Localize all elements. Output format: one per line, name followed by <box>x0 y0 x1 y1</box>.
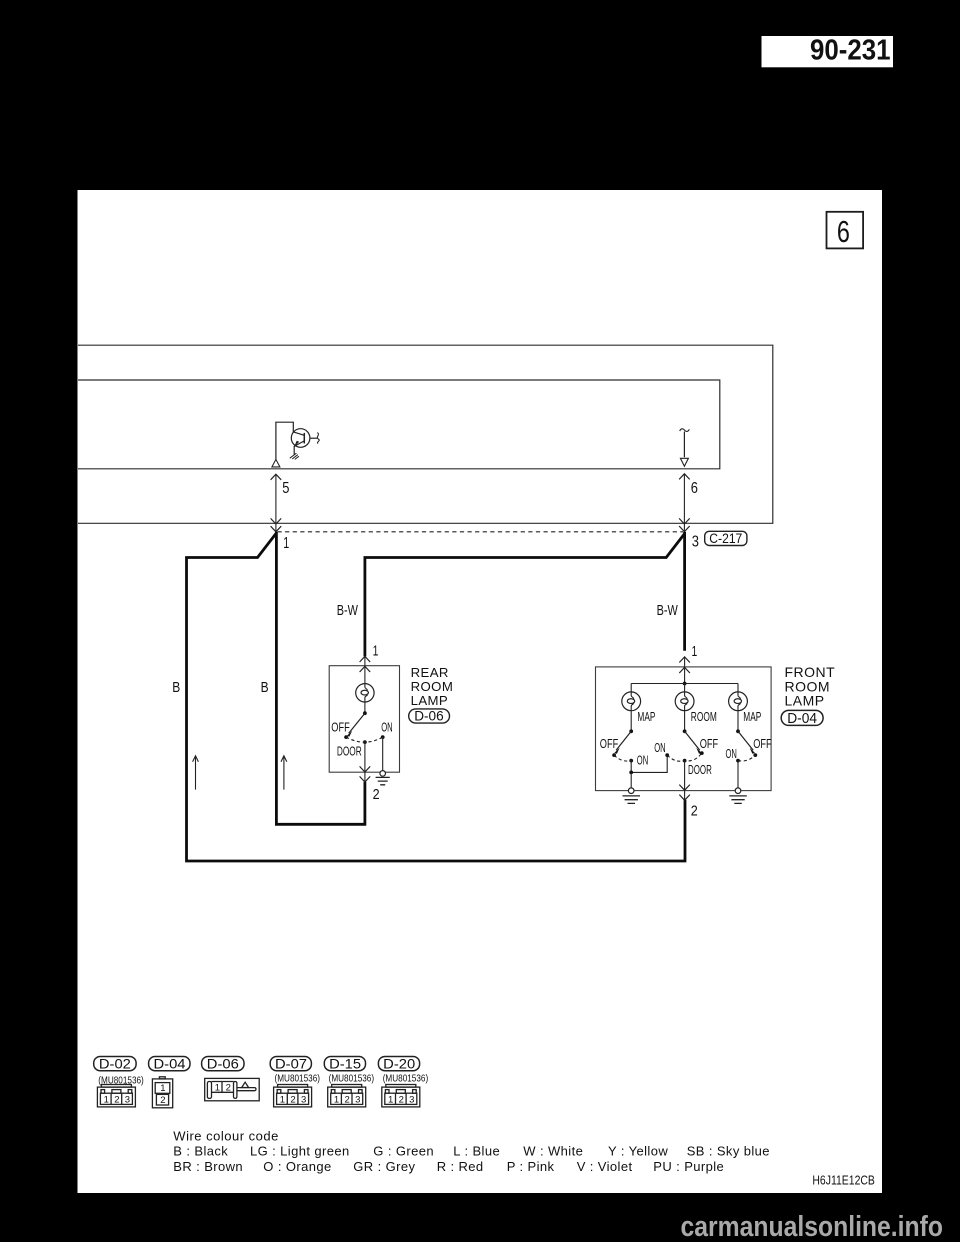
svg-text:ON: ON <box>726 746 737 761</box>
svg-text:B: B <box>261 679 269 696</box>
unit box outer (ETACS unit outline) <box>78 345 773 523</box>
pin 5 arrow <box>271 474 282 532</box>
svg-text:2: 2 <box>399 1094 404 1105</box>
svg-text:DOOR: DOOR <box>337 744 362 759</box>
svg-text:2: 2 <box>373 787 380 803</box>
switch pivot dot <box>363 711 367 715</box>
front room lamp unit box D-04 <box>596 667 772 791</box>
svg-text:3: 3 <box>125 1094 130 1105</box>
connector pill D-07 <box>270 1055 311 1071</box>
middle DOOR dot <box>683 759 687 763</box>
pin digits D-07 <box>280 1094 306 1105</box>
svg-text:D-15: D-15 <box>329 1055 361 1071</box>
svg-text:ROOM: ROOM <box>691 709 717 724</box>
svg-text:LAMP: LAMP <box>785 693 825 709</box>
pin digits D-04 <box>160 1083 165 1106</box>
ground terminal circle right <box>735 788 741 794</box>
connector drawing D-04 <box>152 1077 172 1108</box>
pin digits D-06 <box>215 1082 231 1093</box>
svg-text:6: 6 <box>691 480 698 497</box>
connector-end triangle (hollow, down) <box>680 458 688 466</box>
flow arrow left <box>193 756 199 790</box>
svg-text:2: 2 <box>691 803 698 819</box>
lamp bus wire <box>631 683 738 685</box>
svg-text:D-06: D-06 <box>207 1055 239 1071</box>
connector C-217 dashed line <box>278 531 684 533</box>
svg-text:5: 5 <box>282 480 289 497</box>
svg-text:H6J11E12CB: H6J11E12CB <box>812 1172 875 1187</box>
svg-text:B-W: B-W <box>657 602 679 619</box>
sheet number box 6 <box>827 212 864 249</box>
svg-text:3: 3 <box>301 1094 306 1105</box>
svg-text:P : Pink: P : Pink <box>507 1159 555 1174</box>
svg-text:D-04: D-04 <box>154 1055 186 1071</box>
svg-text:1: 1 <box>692 644 698 660</box>
wire B-W junction3 to front lamp pin1 (thick) <box>683 532 686 651</box>
bulb MAP right <box>729 684 748 732</box>
right OFF dot <box>753 753 757 757</box>
wire DOOR to pin2 <box>364 742 366 781</box>
svg-text:1: 1 <box>388 1094 393 1105</box>
right selector dashed arc <box>738 755 755 761</box>
wire ON to ground <box>382 737 384 771</box>
ground (front right) <box>729 796 747 804</box>
svg-text:(MU801536): (MU801536) <box>383 1073 429 1085</box>
link dot <box>629 771 633 775</box>
left switch blade <box>616 731 631 750</box>
middle switch pivot dot <box>683 729 687 733</box>
wire <box>683 432 685 458</box>
svg-text:ON: ON <box>381 720 392 735</box>
connector-end triangle (hollow, up) <box>272 459 280 467</box>
right ON dot <box>736 759 740 763</box>
svg-text:REAR: REAR <box>411 665 449 680</box>
rear pin 1 chevrons <box>360 656 371 672</box>
pin digits D-20 <box>388 1094 414 1105</box>
bulb rear room lamp <box>356 684 374 702</box>
wire left to ground <box>630 772 632 788</box>
ground (front left) <box>623 796 641 804</box>
pin digits D-15 <box>334 1094 360 1105</box>
left switch pivot dot <box>629 729 633 733</box>
svg-text:1: 1 <box>334 1094 339 1105</box>
svg-text:B-W: B-W <box>337 602 359 619</box>
svg-text:1: 1 <box>104 1094 109 1105</box>
wire B-W junction3 to rear lamp pin1 (thick) <box>365 534 685 657</box>
svg-text:O : Orange: O : Orange <box>263 1159 331 1174</box>
wire DOOR to pin2 (front) <box>684 761 686 800</box>
connector drawing D-15 <box>328 1085 366 1107</box>
svg-text:W : White: W : White <box>523 1144 583 1159</box>
middle ON dot <box>665 753 669 757</box>
middle selector dashed arc <box>667 753 702 761</box>
wire B junction1 down to rear lamp pin2 (thick) <box>276 532 365 825</box>
svg-text:ON: ON <box>637 753 648 768</box>
svg-text:(MU801536): (MU801536) <box>275 1073 321 1085</box>
svg-text:SB : Sky blue: SB : Sky blue <box>687 1144 770 1159</box>
svg-text:ROOM: ROOM <box>411 679 454 694</box>
left OFF dot <box>612 753 616 757</box>
svg-text:2: 2 <box>226 1082 231 1093</box>
transistor ground (chassis) <box>290 453 299 459</box>
bulb MAP left <box>622 684 641 732</box>
front pin 1 chevrons <box>679 657 690 673</box>
svg-text:R : Red: R : Red <box>437 1159 484 1174</box>
svg-text:OFF: OFF <box>600 736 618 751</box>
connector drawing D-20 <box>382 1085 420 1107</box>
white diagram page <box>78 190 883 1193</box>
wire bulb to switch <box>364 702 366 713</box>
svg-text:1: 1 <box>215 1082 220 1093</box>
right switch pivot dot <box>736 729 740 733</box>
left selector dashed arc <box>614 755 631 761</box>
wire right ON to ground <box>737 761 739 788</box>
svg-text:6: 6 <box>837 215 850 249</box>
svg-text:D-02: D-02 <box>99 1055 131 1071</box>
svg-text:Y : Yellow: Y : Yellow <box>608 1144 668 1159</box>
contact DOOR dot <box>363 740 367 744</box>
middle switch blade <box>685 731 700 750</box>
connector pill D-06 <box>202 1055 244 1071</box>
svg-text:MAP: MAP <box>637 709 655 724</box>
svg-text:PU : Purple: PU : Purple <box>653 1159 724 1174</box>
ground terminal circle <box>380 771 386 777</box>
svg-text:2: 2 <box>345 1094 350 1105</box>
unit name REAR ROOM LAMP <box>411 665 454 708</box>
connector pill D-15 <box>324 1055 365 1071</box>
svg-text:LAMP: LAMP <box>411 693 449 708</box>
svg-text:B : Black: B : Black <box>173 1144 228 1159</box>
rear pin 2 chevrons <box>360 766 371 782</box>
flow arrow mid <box>281 756 287 790</box>
wire pin1 to bulb <box>364 657 366 684</box>
unit name FRONT ROOM LAMP <box>785 664 836 709</box>
svg-text:LG : Light green: LG : Light green <box>250 1144 350 1159</box>
bus junction dot <box>683 682 687 686</box>
svg-text:V : Violet: V : Violet <box>577 1159 633 1174</box>
transistor Q1 <box>291 429 317 455</box>
wire-continues squiggle right <box>680 429 690 432</box>
connector drawing D-07 <box>274 1085 312 1107</box>
svg-text:D-07: D-07 <box>275 1055 307 1071</box>
bulb ROOM <box>675 684 694 732</box>
connector label C-217 <box>705 531 747 546</box>
connector label D-04 <box>781 710 823 726</box>
svg-text:OFF: OFF <box>700 736 718 751</box>
connector pill D-02 <box>94 1055 136 1071</box>
svg-text:(MU801536): (MU801536) <box>329 1073 375 1085</box>
svg-text:L : Blue: L : Blue <box>453 1144 500 1159</box>
wire B junction1 to left loop to front lamp pin2 (thick) <box>187 533 686 861</box>
rear room lamp unit box D-06 <box>329 666 399 773</box>
link wire left ON to middle ON <box>631 755 667 772</box>
svg-text:DOOR: DOOR <box>688 762 712 777</box>
svg-text:carmanualsonline.info: carmanualsonline.info <box>681 1211 944 1242</box>
svg-text:2: 2 <box>290 1094 295 1105</box>
svg-text:B: B <box>172 679 180 696</box>
svg-text:OFF: OFF <box>331 720 349 735</box>
svg-text:D-20: D-20 <box>383 1055 415 1071</box>
pin digits D-02 <box>104 1094 130 1105</box>
contact OFF dot <box>344 735 348 739</box>
svg-text:1: 1 <box>160 1083 165 1094</box>
left ON dot <box>629 759 633 763</box>
transistor Q1 wire <box>276 422 293 459</box>
page number plate <box>762 34 894 67</box>
svg-text:Wire colour code: Wire colour code <box>173 1128 279 1143</box>
svg-text:3: 3 <box>692 534 699 551</box>
right switch blade <box>738 731 753 750</box>
svg-text:ON: ON <box>654 740 665 755</box>
svg-text:C-217: C-217 <box>709 531 742 546</box>
svg-text:GR : Grey: GR : Grey <box>353 1159 415 1174</box>
svg-text:3: 3 <box>355 1094 360 1105</box>
connector pill D-20 <box>378 1055 419 1071</box>
connector label D-06 <box>409 708 450 724</box>
front pin 2 chevrons <box>679 785 690 801</box>
selector dashed arc <box>346 737 383 742</box>
svg-text:MAP: MAP <box>743 709 761 724</box>
pin 6 arrow <box>679 474 690 532</box>
wire colour code line 2 <box>173 1159 724 1174</box>
svg-text:1: 1 <box>283 535 289 552</box>
ground (rear) <box>376 777 390 784</box>
svg-text:90-231: 90-231 <box>810 34 891 66</box>
ground terminal circle left <box>628 788 634 794</box>
svg-text:2: 2 <box>160 1095 165 1106</box>
wire pin1 to bus <box>684 658 686 684</box>
svg-text:OFF: OFF <box>753 736 771 751</box>
connector drawing D-02 <box>97 1085 135 1107</box>
svg-text:D-06: D-06 <box>414 708 444 724</box>
unit box inner <box>78 380 720 469</box>
svg-text:1: 1 <box>373 644 379 660</box>
svg-text:2: 2 <box>114 1094 119 1105</box>
svg-text:BR : Brown: BR : Brown <box>173 1159 243 1174</box>
svg-text:D-04: D-04 <box>787 711 817 727</box>
wire colour code line 1 <box>173 1144 770 1159</box>
svg-text:3: 3 <box>409 1094 414 1105</box>
connector drawing D-06 <box>205 1078 260 1100</box>
connector pill D-04 <box>149 1055 190 1071</box>
svg-text:1: 1 <box>280 1094 285 1105</box>
wire-continues squiggle (base lead) <box>317 433 319 444</box>
switch blade (to OFF) <box>349 713 365 733</box>
svg-text:G : Green: G : Green <box>373 1144 434 1159</box>
middle OFF dot <box>700 751 704 755</box>
contact ON dot <box>381 735 385 739</box>
